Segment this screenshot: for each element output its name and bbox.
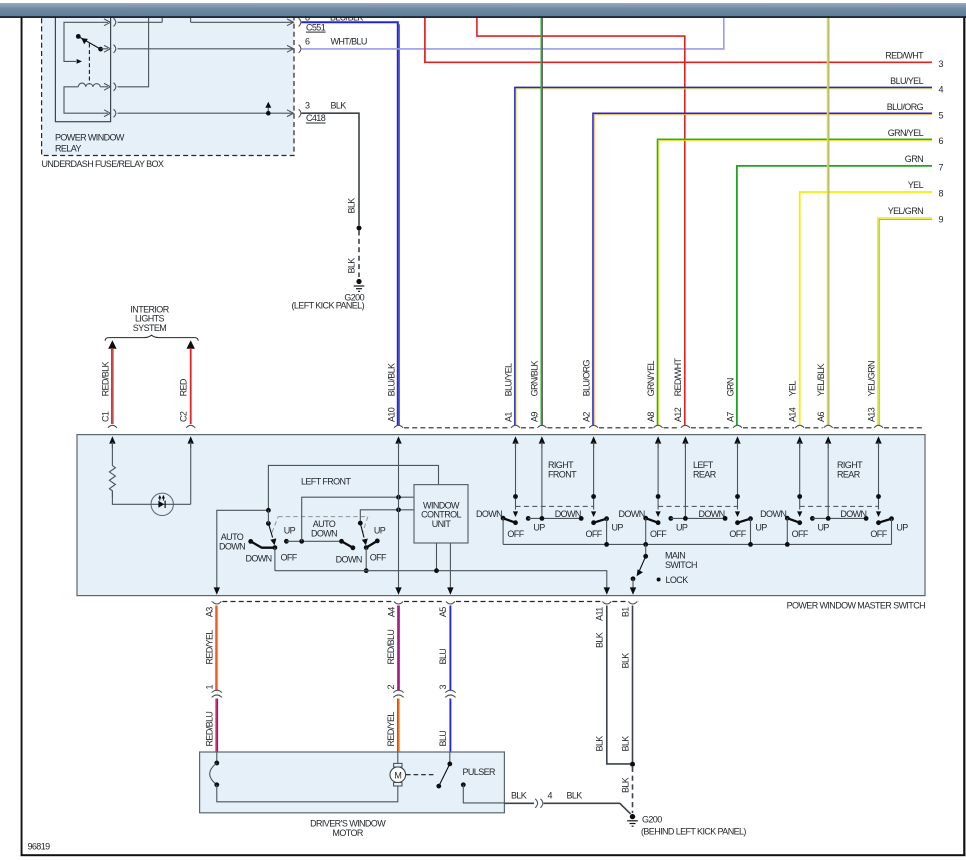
svg-text:C551: C551 [306, 22, 326, 32]
svg-text:3: 3 [438, 685, 448, 690]
svg-text:DOWN: DOWN [840, 509, 866, 519]
svg-text:(LEFT KICK PANEL): (LEFT KICK PANEL) [292, 301, 365, 311]
relay switch blade [80, 37, 101, 49]
svg-text:3: 3 [939, 59, 944, 69]
svg-text:OFF: OFF [507, 529, 524, 539]
svg-text:RED/BLK: RED/BLK [100, 361, 110, 396]
limit switch lower dot [214, 782, 219, 787]
wire sw2 pivot to WCU-2 [360, 510, 414, 523]
RIGHT REAR left switch rocker [787, 518, 799, 523]
pin bump A2 [589, 425, 598, 428]
RIGHT FRONT left switch pivot dot [513, 494, 518, 499]
RIGHT REAR left switch blade arrowhead [797, 511, 802, 517]
svg-text:LOCK: LOCK [666, 575, 689, 585]
svg-text:YEL/GRN: YEL/GRN [866, 361, 876, 396]
svg-text:DOWN: DOWN [311, 528, 337, 538]
svg-text:OFF: OFF [280, 552, 297, 562]
svg-text:RED: RED [179, 378, 189, 396]
junction dot sw1 feed [266, 508, 271, 513]
svg-text:DOWN: DOWN [555, 509, 581, 519]
WCU pin to rail [436, 543, 438, 571]
svg-text:MAIN: MAIN [665, 550, 685, 560]
page border bottom [21, 854, 966, 856]
svg-text:AUTO: AUTO [221, 532, 244, 542]
ground G200 dot [630, 814, 635, 819]
RIGHT REAR left switch pivot dot [797, 494, 802, 499]
svg-text:BLK: BLK [595, 736, 605, 752]
svg-text:8: 8 [939, 188, 944, 198]
svg-text:A13: A13 [866, 407, 876, 422]
ground G200 symbol [354, 285, 365, 292]
LEFT REAR right switch feed wire [737, 442, 739, 510]
svg-text:BLK: BLK [567, 791, 583, 801]
sw1 wire pivot stub [267, 510, 269, 523]
relay pin 4 symbol [104, 109, 116, 117]
wire RED/YEL A4 lower [398, 699, 399, 753]
svg-text:A6: A6 [816, 412, 826, 422]
svg-text:SYSTEM: SYSTEM [133, 323, 167, 333]
LEFT REAR dashed mechanical link [658, 505, 737, 507]
RIGHT FRONT dashed mechanical link [516, 505, 594, 507]
LEFT REAR up/down link wire [671, 517, 725, 519]
pin bump C2 [186, 425, 195, 428]
LEFT REAR left switch feed wire [657, 442, 659, 510]
svg-text:DRIVER’S WINDOW: DRIVER’S WINDOW [310, 819, 386, 829]
svg-text:UP: UP [533, 522, 545, 532]
RIGHT FRONT left switch down wire to rail [502, 518, 504, 544]
relay blade arrowhead [81, 38, 88, 44]
relay coil [78, 83, 100, 87]
sw1 blade arrowhead [270, 538, 276, 545]
svg-text:UP: UP [755, 522, 767, 532]
RIGHT REAR left switch down wire to rail [786, 518, 788, 544]
wire to motor bottom [217, 785, 398, 802]
svg-text:BLK: BLK [347, 258, 357, 274]
junction dot on pin4 wire [266, 111, 271, 116]
connector C551 pin 8 symbol [287, 18, 301, 26]
wire BLK pulser to G200 [504, 802, 534, 804]
relay coil right wire to pin3 [100, 86, 108, 88]
svg-text:YEL: YEL [908, 180, 924, 190]
limit switch arc [210, 763, 217, 785]
limit switch upper dot [214, 761, 219, 766]
svg-text:GRN: GRN [725, 378, 735, 396]
internal arrows at top pins [109, 436, 882, 443]
RIGHT FRONT right switch up wire to rail [606, 519, 608, 545]
svg-text:AUTO: AUTO [313, 519, 336, 529]
svg-text:GRN: GRN [905, 154, 923, 164]
rail junction dot RIGHT REAR down [785, 542, 790, 547]
svg-text:UP: UP [284, 525, 296, 535]
rail junction dot RIGHT FRONT up [604, 542, 609, 547]
wire RED/WHT feed (from top, exits right edge pin 3) [425, 18, 932, 63]
arrow C2 to interior lights [187, 340, 195, 348]
pin bump A6 [824, 425, 833, 428]
wire GRN/BLK (from top to A9) [541, 18, 542, 426]
RIGHT REAR left switch up contact [810, 516, 815, 521]
relay switch upper contact [76, 34, 81, 39]
drivers window motor box [200, 752, 505, 813]
RIGHT REAR mid tap wire [827, 442, 829, 518]
svg-text:BLK: BLK [620, 653, 630, 669]
A10-A4 through vertical [398, 442, 400, 589]
svg-text:MOTOR: MOTOR [332, 828, 363, 838]
junction dot WCU-2 on A10 [396, 507, 401, 512]
svg-text:9: 9 [939, 214, 944, 224]
arrow C1 to interior lights [108, 340, 116, 348]
svg-text:SWITCH: SWITCH [665, 560, 697, 570]
svg-text:GRN/BLK: GRN/BLK [530, 360, 540, 396]
LEFT REAR mid tap wire [684, 442, 686, 518]
svg-text:OFF: OFF [729, 529, 746, 539]
wire relay pin1 to C551-8 [118, 21, 294, 23]
LEFT REAR right switch blade arrowhead [735, 511, 740, 517]
pin bump B1 [628, 602, 637, 605]
svg-text:RED/YEL: RED/YEL [386, 712, 396, 747]
svg-text:RIGHT: RIGHT [548, 460, 574, 470]
wire WHT/BLU C551-6 [302, 18, 724, 49]
LED arrows [160, 497, 164, 500]
svg-text:DOWN: DOWN [698, 509, 724, 519]
wire RED/WHT (from top to A12) [477, 18, 685, 426]
wire GRN/YEL (right edge pin 6 to A8) [658, 139, 933, 425]
wire RED C2 [190, 348, 192, 424]
RIGHT FRONT left switch blade arrowhead [513, 511, 518, 517]
svg-text:DOWN: DOWN [245, 554, 271, 564]
pin bump A7 [733, 425, 742, 428]
wire C1 to resistor [111, 442, 113, 466]
svg-text:BLU/YEL: BLU/YEL [503, 363, 513, 396]
ground G200 dot [356, 279, 361, 284]
lock bullet [657, 578, 661, 582]
page border left [21, 18, 23, 856]
svg-text:BLK: BLK [620, 777, 630, 793]
svg-text:YEL: YEL [788, 381, 798, 397]
wire GRN (right edge pin 7 to A7) [737, 166, 932, 426]
wire YEL (right edge pin 8 to A14) [800, 192, 932, 426]
relay pin 2 symbol [104, 45, 116, 53]
svg-text:UP: UP [896, 522, 908, 532]
pulser blade [439, 764, 450, 786]
svg-text:OFF: OFF [870, 529, 887, 539]
RIGHT FRONT mid tap wire [541, 442, 543, 518]
svg-text:4: 4 [548, 791, 553, 801]
page border right [963, 18, 965, 857]
power window master switch box [77, 435, 925, 596]
RIGHT FRONT left switch feed wire [515, 442, 517, 510]
svg-text:UP: UP [676, 522, 688, 532]
svg-text:YEL/BLK: YEL/BLK [816, 363, 826, 396]
RIGHT REAR right switch up wire to rail [891, 519, 893, 545]
relay switch pivot [98, 47, 103, 52]
junction dot WCU-1 on A10 [396, 495, 401, 500]
wire LED to C2 [190, 442, 192, 504]
left front off rail to A11 [275, 571, 607, 589]
rail junction dot LEFT REAR up [748, 542, 753, 547]
svg-text:DOWN: DOWN [476, 509, 502, 519]
main switch pivot dot [643, 554, 648, 559]
sw2 down rocker arm [342, 541, 353, 548]
RIGHT FRONT right switch feed wire [593, 442, 595, 510]
svg-text:6: 6 [939, 136, 944, 146]
svg-text:BLU/YEL: BLU/YEL [890, 76, 923, 86]
svg-text:A10: A10 [386, 407, 396, 422]
main switch blade arrowhead [637, 569, 643, 576]
junction dot A11/B1 [630, 762, 635, 767]
svg-text:BLK: BLK [595, 632, 605, 648]
svg-text:B1: B1 [621, 607, 631, 617]
svg-text:A8: A8 [646, 412, 656, 422]
svg-text:4: 4 [939, 84, 944, 94]
sw2 off wire down to rail [365, 548, 367, 571]
sw1 blade [268, 523, 272, 537]
RIGHT FRONT right switch down contact [579, 516, 584, 521]
wire sw1 pivot to WCU top link [268, 465, 438, 510]
master switch top dashed connector line [404, 427, 925, 429]
LEFT REAR left switch pivot dot [656, 494, 661, 499]
pin bump C1 [108, 425, 117, 428]
svg-text:A2: A2 [581, 412, 591, 422]
connector C418 pin 3 symbol [287, 109, 301, 117]
pin bump A4 [394, 602, 403, 605]
RIGHT REAR right switch pivot dot [876, 494, 881, 499]
motor feed wire in [397, 752, 399, 763]
svg-text:1: 1 [204, 685, 214, 690]
svg-text:YEL/GRN: YEL/GRN [888, 206, 923, 216]
svg-text:UP: UP [818, 522, 830, 532]
svg-text:RED/YEL: RED/YEL [204, 630, 214, 665]
svg-text:FRONT: FRONT [548, 469, 577, 479]
svg-text:BLK: BLK [347, 198, 357, 214]
RIGHT REAR right switch rocker [879, 519, 892, 523]
wire BLK A11 [607, 606, 630, 764]
relay coil left wire to pin4 [64, 87, 108, 113]
svg-text:DOWN: DOWN [760, 509, 786, 519]
svg-text:UP: UP [374, 525, 386, 535]
underdash fuse/relay box [42, 10, 294, 156]
motor limit switch wire in [216, 752, 218, 761]
RIGHT REAR right switch feed wire [878, 442, 880, 510]
svg-text:G200: G200 [642, 814, 662, 824]
RIGHT FRONT right switch rocker [594, 519, 607, 523]
svg-text:7: 7 [939, 162, 944, 172]
RIGHT REAR left switch feed wire [799, 442, 801, 510]
RIGHT FRONT up/down link wire [528, 517, 581, 519]
LEFT REAR left switch up contact [668, 516, 673, 521]
svg-text:A12: A12 [673, 407, 683, 422]
RIGHT REAR up/down link wire [812, 517, 866, 519]
svg-text:3: 3 [305, 100, 310, 110]
connector 4 symbols [535, 799, 543, 808]
svg-text:A14: A14 [788, 407, 798, 422]
internal arrows at bottom pins [214, 587, 637, 594]
svg-text:RED/BLU: RED/BLU [386, 630, 396, 665]
svg-text:REAR: REAR [837, 469, 861, 479]
RIGHT REAR right switch down contact [864, 516, 869, 521]
svg-text:BLU/BLK: BLU/BLK [386, 363, 396, 396]
pulser pickup wire out [463, 785, 504, 803]
svg-text:UNIT: UNIT [432, 519, 452, 529]
pulser pickup dot [461, 782, 466, 787]
pin bump A10 [394, 425, 403, 428]
svg-text:OFF: OFF [792, 529, 809, 539]
sw2 off-up rocker arm [366, 541, 377, 548]
svg-text:UNDERDASH FUSE/RELAY BOX: UNDERDASH FUSE/RELAY BOX [42, 159, 164, 169]
svg-text:LEFT FRONT: LEFT FRONT [301, 477, 351, 487]
svg-text:OFF: OFF [650, 529, 667, 539]
lower contact arrowhead [77, 59, 82, 64]
RIGHT REAR dashed mechanical link [800, 505, 879, 507]
RIGHT FRONT right switch pivot dot [591, 494, 596, 499]
svg-text:BLU/ORG: BLU/ORG [887, 102, 924, 112]
svg-text:C2: C2 [179, 411, 189, 422]
junction dot sw2 off on rail [364, 568, 369, 573]
LEFT REAR right switch up wire to rail [750, 519, 752, 545]
wire relay pin2 to C551-6 [118, 48, 294, 50]
pin bump A13 [874, 425, 883, 428]
svg-text:RED/BLU: RED/BLU [204, 712, 214, 747]
pulser lower dot [436, 784, 441, 789]
right switches off rail [503, 543, 891, 545]
svg-text:RELAY: RELAY [55, 144, 81, 154]
svg-text:WHT/BLU: WHT/BLU [331, 37, 367, 47]
WCU pin to A5 [449, 543, 451, 589]
LEFT REAR right switch rocker [738, 519, 751, 523]
svg-text:M: M [394, 770, 401, 780]
ground G200 symbol [627, 820, 638, 827]
junction dot on up/down link [299, 539, 304, 544]
motor brushes [394, 763, 402, 767]
RIGHT FRONT left switch up contact [526, 516, 531, 521]
resistor (interior lamp) [109, 466, 115, 497]
svg-text:A1: A1 [503, 412, 513, 422]
RIGHT REAR right switch blade arrowhead [876, 511, 881, 517]
wire BLU/YEL (right edge pin 4 to A1) [515, 87, 932, 425]
pin bump A9 [537, 425, 546, 428]
junction dot BLK [357, 226, 362, 231]
svg-text:GRN/YEL: GRN/YEL [888, 128, 924, 138]
svg-text:UP: UP [611, 522, 623, 532]
sw2 blade [360, 523, 364, 537]
pin bump A1 [511, 425, 520, 428]
svg-text:DOWN: DOWN [219, 542, 245, 552]
branch verticals up from pin1 wire (cut by bar) [162, 18, 190, 23]
wire BLU/BLK C551-8 to A10 [302, 22, 398, 425]
brace under interior lights [105, 335, 198, 341]
svg-text:PULSER: PULSER [463, 767, 497, 777]
svg-text:POWER WINDOW: POWER WINDOW [55, 133, 125, 143]
svg-text:REAR: REAR [693, 469, 717, 479]
power window relay box [55, 10, 110, 122]
wire BLU A5 upper [449, 606, 451, 691]
pulser dashed link [406, 774, 434, 776]
LEFT REAR right switch pivot dot [735, 494, 740, 499]
svg-text:GRN/YEL: GRN/YEL [646, 360, 656, 396]
svg-text:RIGHT: RIGHT [837, 460, 863, 470]
RIGHT FRONT left switch rocker [503, 518, 515, 523]
sw1 off wire down to rail [274, 548, 276, 571]
svg-text:OFF: OFF [370, 552, 387, 562]
svg-text:LEFT: LEFT [693, 460, 714, 470]
main switch stub [645, 544, 647, 556]
svg-text:(BEHIND LEFT KICK PANEL): (BEHIND LEFT KICK PANEL) [641, 826, 746, 836]
svg-text:96819: 96819 [28, 842, 51, 852]
sw1 mech dashed link to sw2 [272, 517, 368, 533]
pin bump A3 [212, 602, 221, 605]
wire RED/BLU A3 lower [216, 699, 217, 753]
master switch bottom dashed connector line [211, 601, 638, 603]
pin bump A11 [602, 602, 611, 605]
svg-text:A9: A9 [530, 412, 540, 422]
motor circle [390, 767, 406, 783]
wire BLK to ground join [544, 803, 631, 814]
wire A3 feed [217, 510, 269, 589]
LEFT REAR left switch rocker [646, 518, 658, 523]
LED diode symbol [158, 501, 164, 508]
sw2 blade arrowhead [362, 539, 368, 546]
RIGHT FRONT right switch blade arrowhead [591, 511, 596, 517]
svg-text:C418: C418 [306, 113, 326, 123]
connector C551 pin 6 symbol [287, 45, 301, 53]
sw1 up contact dot [284, 539, 289, 544]
svg-text:RED/WHT: RED/WHT [673, 358, 683, 397]
LEFT REAR left switch blade arrowhead [656, 511, 661, 517]
wire sw1 up to sw2 down [286, 540, 341, 542]
wire BLU/ORG (right edge pin 5 to A2) [593, 113, 932, 425]
label C551 [306, 22, 326, 32]
LEFT REAR right switch down contact [723, 516, 728, 521]
svg-text:POWER WINDOW MASTER SWITCH: POWER WINDOW MASTER SWITCH [787, 600, 925, 610]
relay pin 1 symbol [104, 18, 116, 26]
rail junction dot LEFT REAR down / main switch [643, 542, 648, 547]
wire BLK B1 [632, 606, 634, 763]
title bar [0, 0, 966, 18]
svg-text:2: 2 [386, 685, 396, 690]
sw1 rocker (auto down to off) [251, 541, 275, 547]
relay pivot to pin2 wire [101, 48, 108, 50]
wire relay pin4 to C418-3 [118, 112, 294, 114]
svg-text:BLK: BLK [511, 791, 527, 801]
relay pin 3 symbol [104, 83, 116, 91]
svg-text:6: 6 [305, 37, 310, 47]
wire main switch to B1 [632, 579, 634, 589]
label C418 [306, 113, 326, 123]
svg-text:RED/WHT: RED/WHT [885, 51, 924, 61]
sw1 pivot dot [266, 521, 271, 526]
window control unit box [414, 485, 468, 543]
svg-text:5: 5 [939, 110, 944, 120]
wire relay pin3 up to top [118, 18, 149, 87]
svg-text:BLU: BLU [438, 731, 448, 747]
svg-text:A5: A5 [438, 607, 448, 617]
wire YEL/GRN (right edge pin 9 to A13) [878, 218, 932, 426]
relay pin1 internal wire (to lower contact) [64, 22, 108, 61]
pulser upper dot [447, 762, 452, 767]
wire RED/YEL A3 upper [216, 606, 217, 691]
wire RED/BLU A4 upper [398, 606, 399, 691]
pin bump A8 [654, 425, 663, 428]
wire RED/BLK C1 [112, 348, 113, 424]
wire BLU A5 lower [449, 699, 451, 753]
wire WCU-1 to up/down link [302, 497, 414, 541]
pulser blu wire in [449, 752, 451, 762]
svg-text:DOWN: DOWN [336, 554, 362, 564]
pin bump A5 [446, 602, 455, 605]
svg-text:BLK: BLK [620, 736, 630, 752]
LED wire through [151, 503, 191, 505]
LEFT REAR left switch down wire to rail [645, 518, 647, 544]
sw2 pivot dot [358, 521, 363, 526]
